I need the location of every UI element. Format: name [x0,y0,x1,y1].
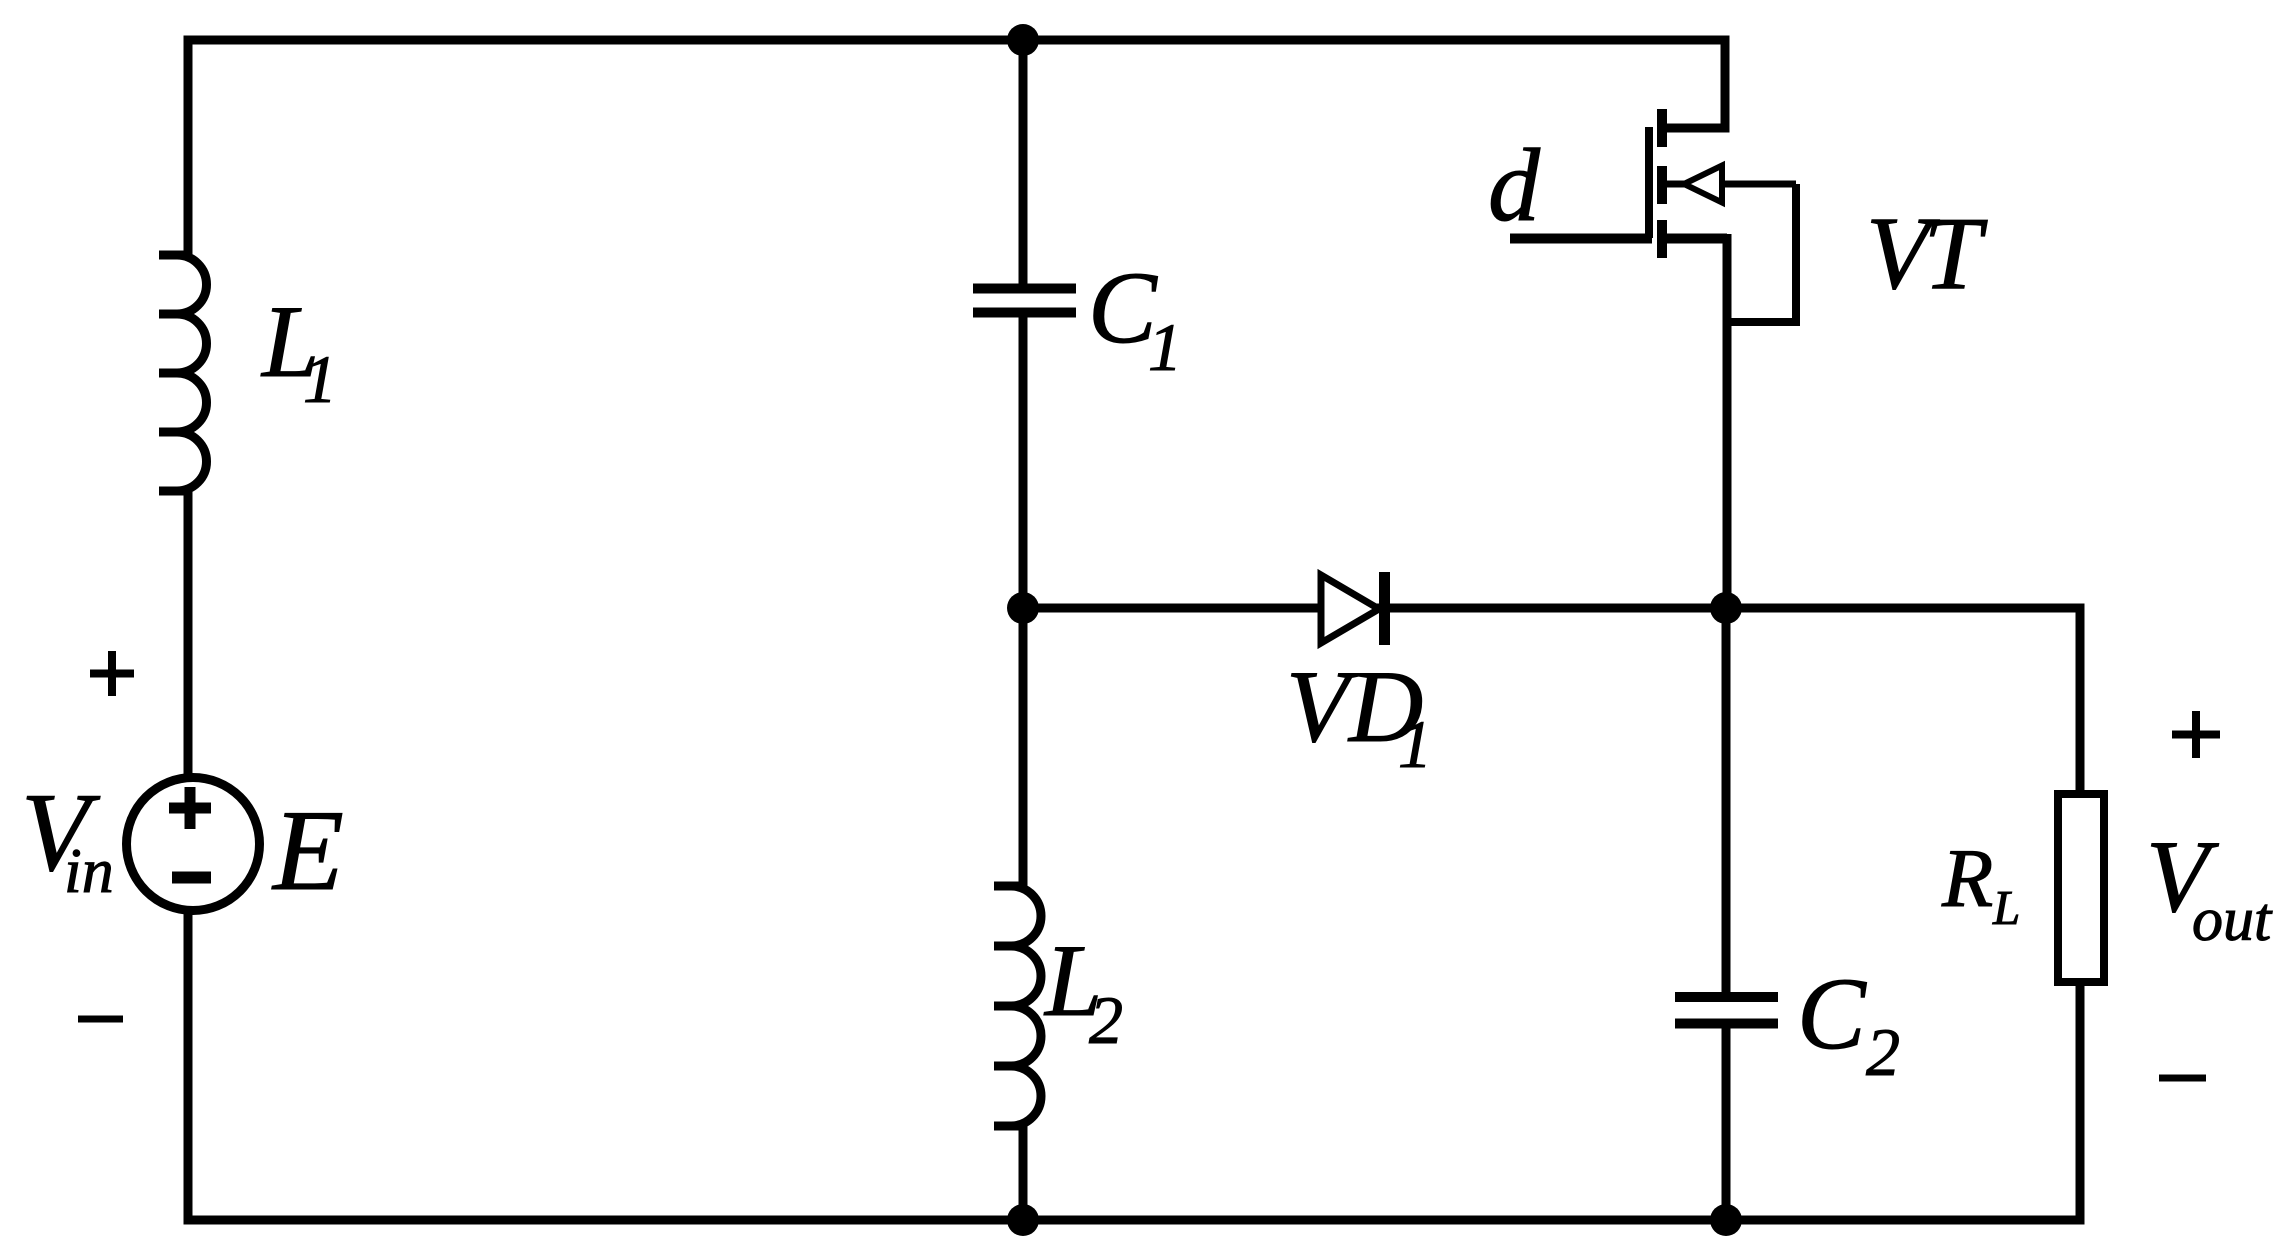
svg-text:1: 1 [303,341,337,417]
wire left rail lower [184,906,193,1225]
wire L2 branch lower [1019,1124,1028,1220]
svg-text:d: d [1488,128,1541,243]
transistor VT source lead [1663,234,1727,244]
svg-text:R: R [1941,832,1993,925]
wire RL branch lower [2076,984,2085,1225]
node bottom right [1710,1204,1742,1236]
transistor VT body arrow [1684,166,1722,203]
svg-text:in: in [64,835,114,906]
wire RL branch upper [2076,604,2085,793]
node middle left [1007,592,1039,624]
transistor VT gate lead [1510,234,1652,244]
source E [127,778,260,911]
resistor RL [2058,794,2104,982]
svg-text:1: 1 [1398,706,1432,782]
transistor VT body loop [1727,184,1796,322]
wire top rail [184,36,1730,45]
wire C2 branch lower [1722,1023,1731,1220]
minus sign Vin [78,1016,123,1023]
wire left rail upper [184,36,193,258]
svg-text:VT: VT [1866,196,1988,311]
inductor L1 [159,255,207,491]
svg-text:C: C [1797,957,1867,1071]
wire left rail middle [184,489,193,782]
transistor VT gate line [1645,127,1653,238]
transistor VT body lead [1667,181,1796,188]
transistor VT drain drop [1663,36,1725,129]
inductor L2 [994,886,1041,1126]
wire L2 branch upper [1019,608,1028,888]
node bottom left [1007,1204,1039,1236]
diode VD1 [1321,575,1379,643]
minus sign Vout [2159,1075,2206,1082]
svg-text:2: 2 [1089,982,1123,1058]
transistor VT channel bars [1657,109,1667,258]
wire VT source [1723,234,1732,608]
svg-text:2: 2 [1866,1014,1900,1090]
wire middle rail [1023,604,2080,613]
wire bottom rail [184,1216,2081,1225]
capacitor C1 [973,284,1076,294]
svg-text:E: E [271,787,344,915]
svg-text:1: 1 [1148,309,1182,385]
plus sign Vin [90,651,134,696]
wire C1 branch lower [1019,312,1028,608]
svg-text:L: L [1992,880,2020,935]
node top [1007,24,1039,56]
wire C2 branch upper [1722,608,1731,992]
plus sign Vout [2172,711,2220,758]
svg-text:out: out [2192,886,2273,954]
wire C1 branch upper [1019,40,1028,284]
capacitor C2 [1675,992,1778,1002]
node middle right [1710,592,1742,624]
